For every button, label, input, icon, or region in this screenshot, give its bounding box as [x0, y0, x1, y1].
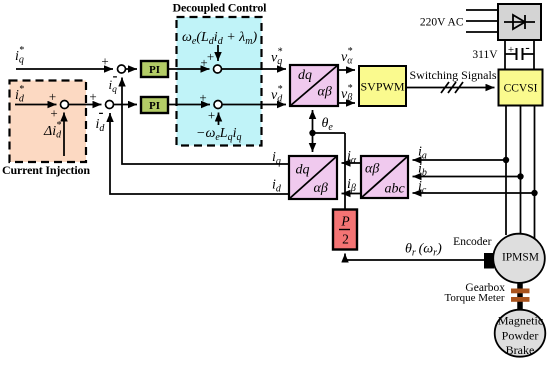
node C sum junction injection — [61, 101, 69, 109]
wire theta e up into dq1 — [312, 110, 314, 133]
svg-text:ic: ic — [418, 179, 427, 196]
wire ic — [413, 192, 535, 194]
wire id feedback — [110, 113, 289, 194]
PI controller d — [141, 97, 168, 113]
CCVSI block — [499, 70, 543, 106]
wire ia — [413, 159, 507, 161]
diode symbol — [504, 21, 535, 23]
svg-text:v*q: v*q — [271, 47, 282, 68]
PI controller q — [141, 61, 168, 77]
svg-text:PI: PI — [149, 100, 160, 112]
wire switching signals — [406, 87, 495, 89]
node ia tap — [503, 157, 509, 163]
wire phase a — [505, 105, 507, 235]
wire va* — [338, 69, 355, 71]
svg-text:αβ: αβ — [318, 85, 332, 100]
shaft — [517, 282, 523, 311]
svg-text:2: 2 — [342, 232, 349, 247]
node B sum junction d — [106, 101, 114, 109]
svg-text:311V: 311V — [472, 49, 498, 61]
svg-text:Decoupled Control: Decoupled Control — [173, 1, 268, 15]
svg-text:αβ: αβ — [365, 162, 379, 177]
svg-text:v*d: v*d — [271, 84, 283, 105]
wire dc link right — [533, 40, 535, 70]
gearbox bar — [511, 289, 530, 294]
svg-text:ia: ia — [418, 145, 427, 162]
SVPWM block — [359, 66, 406, 106]
svg-text:iq: iq — [272, 150, 281, 167]
wire junction D to dq1 — [222, 68, 287, 70]
wire theta e down into dq2 — [312, 133, 314, 152]
svg-text:Powder: Powder — [502, 329, 539, 343]
ab-dq transform block U2 — [289, 156, 337, 199]
svg-text:dq: dq — [298, 68, 312, 83]
svg-text:Current Injection: Current Injection — [2, 163, 90, 177]
svg-text:i*q: i*q — [15, 45, 24, 66]
svg-text:ib: ib — [418, 162, 427, 179]
svg-text:Magnetic: Magnetic — [498, 314, 543, 328]
current injection dashed box — [10, 81, 87, 163]
wire ib — [413, 176, 521, 178]
slash marks — [441, 82, 463, 93]
svg-text:PI: PI — [149, 64, 160, 76]
svg-text:IPMSM: IPMSM — [502, 252, 539, 264]
wire iq feedback — [122, 78, 289, 165]
wire feedforward q into D — [217, 45, 219, 61]
wire iq* input — [16, 68, 113, 70]
wire phase b — [520, 105, 522, 234]
wire dc link left — [504, 40, 506, 70]
svg-text:+: + — [49, 89, 56, 104]
svg-text:+: + — [208, 108, 215, 123]
wire vb* — [338, 102, 355, 104]
wire i alpha — [342, 162, 362, 164]
P over 2 block — [333, 210, 357, 250]
wire junction B to PI2 — [114, 104, 138, 106]
ab-abc transform block U3 — [361, 156, 408, 198]
svg-text:iβ: iβ — [347, 177, 356, 194]
torque meter bar — [511, 297, 530, 302]
node ic tap — [531, 190, 537, 196]
svg-text:Δi*d: Δi*d — [43, 120, 62, 141]
svg-text:Brake: Brake — [506, 343, 535, 357]
svg-text:+: + — [199, 90, 206, 105]
svg-text:SVPWM: SVPWM — [360, 80, 404, 94]
node ib tap — [517, 173, 523, 179]
svg-text:v*β: v*β — [341, 83, 352, 104]
wire PI2 to junction E — [168, 104, 210, 106]
IPMSM motor — [493, 234, 545, 283]
svg-text:θe: θe — [322, 116, 334, 133]
magnetic powder brake — [495, 310, 546, 357]
wire delta id* into C — [63, 113, 65, 157]
wire phase c — [534, 105, 536, 241]
svg-text:+: + — [508, 44, 514, 56]
svg-text:-: - — [525, 40, 529, 55]
svg-text:v*α: v*α — [341, 46, 353, 67]
wires 220V AC — [466, 10, 498, 32]
svg-text:dq: dq — [296, 163, 310, 178]
wire junction C to junction B — [68, 104, 102, 106]
wire i beta — [342, 193, 362, 195]
wire junction E to dq1 — [222, 104, 286, 106]
svg-text:CCVSI: CCVSI — [504, 83, 538, 95]
svg-text:P: P — [340, 214, 349, 229]
svg-text:id: id — [272, 178, 282, 195]
wire junction A to PI1 — [126, 68, 138, 70]
decoupled control dashed box — [177, 17, 262, 146]
wire id* input — [15, 104, 57, 106]
svg-text:+: + — [207, 49, 214, 64]
svg-text:+: + — [89, 89, 96, 104]
svg-text:Torque Meter: Torque Meter — [444, 292, 504, 304]
wire theta r from encoder — [345, 254, 485, 261]
wire feedforward d into E — [218, 113, 220, 126]
svg-text:abc: abc — [385, 182, 406, 197]
dq-ab transform block U1 — [290, 65, 338, 106]
node theta e junction — [309, 130, 315, 136]
svg-text:θr (ωr): θr (ωr) — [405, 242, 442, 259]
wire theta e vertical to P2 — [344, 133, 346, 210]
wire theta e horizontal — [313, 132, 346, 134]
svg-text:+: + — [50, 106, 57, 121]
svg-text:Switching Signals: Switching Signals — [409, 68, 496, 82]
rectifier block — [498, 4, 541, 40]
svg-text:αβ: αβ — [314, 181, 328, 196]
svg-text:iα: iα — [347, 149, 357, 166]
svg-text:i*d: i*d — [15, 84, 25, 105]
capacitor C1 — [505, 48, 534, 60]
encoder block — [485, 254, 494, 269]
wire PI1 to junction D — [168, 68, 210, 70]
svg-text:-: - — [113, 69, 118, 85]
node E sum junction feedforward d — [214, 101, 222, 109]
svg-text:+: + — [101, 54, 108, 69]
node D sum junction feedforward q — [214, 65, 222, 73]
svg-text:220V AC: 220V AC — [420, 17, 464, 29]
svg-text:Encoder: Encoder — [453, 236, 491, 248]
node A sum junction q — [118, 65, 126, 73]
